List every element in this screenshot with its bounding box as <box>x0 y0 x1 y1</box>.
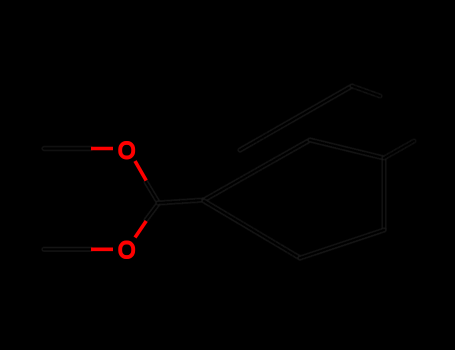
wire: ring upper-left long edge <box>204 140 310 200</box>
wire: O1 to acetal C red half <box>135 161 146 181</box>
wire: parallel diagonal above ring <box>240 86 352 150</box>
wire: top C-O bond red half <box>91 147 113 151</box>
wire: O2 to acetal C red half <box>135 221 146 238</box>
node O2: bottom oxygen glyph <box>120 243 133 258</box>
wire: top ethyl C-C bond <box>44 146 91 151</box>
wire: O1 to acetal C black half <box>146 182 158 202</box>
wire: O2 to acetal C black half <box>146 204 158 220</box>
wire: top stub <box>352 86 380 96</box>
wire: bottom C-O bond red half <box>91 248 113 252</box>
wire: ring right vertical edge <box>382 158 387 230</box>
wire: acetal C to ring carbon <box>158 200 204 203</box>
wire: ring lower-right edge <box>300 230 384 258</box>
wire: right stub <box>384 141 414 158</box>
wire: bottom ethyl C-C bond <box>44 247 91 252</box>
wire: ring upper-right edge <box>310 140 384 158</box>
node O1: top oxygen glyph <box>120 143 133 158</box>
wire: ring lower-left long edge <box>204 201 300 258</box>
